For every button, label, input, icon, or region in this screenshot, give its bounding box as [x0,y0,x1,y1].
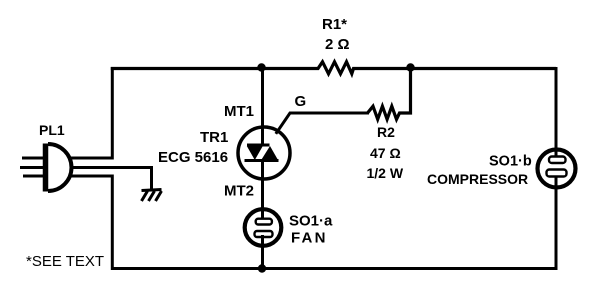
svg-text:TR1: TR1 [200,129,228,146]
svg-text:SO1·a: SO1·a [289,213,333,230]
svg-text:MT2: MT2 [224,183,254,200]
svg-text:MT1: MT1 [224,103,254,120]
svg-text:R2: R2 [377,124,395,140]
svg-text:47 Ω: 47 Ω [370,145,401,161]
svg-text:*SEE TEXT: *SEE TEXT [26,253,104,270]
svg-text:G: G [295,93,307,110]
svg-text:COMPRESSOR: COMPRESSOR [427,171,528,187]
svg-text:SO1·b: SO1·b [489,154,532,170]
svg-text:FAN: FAN [291,230,328,247]
svg-text:ECG 5616: ECG 5616 [158,149,228,166]
svg-text:PL1: PL1 [39,122,65,138]
svg-text:2 Ω: 2 Ω [325,36,350,53]
svg-text:R1*: R1* [322,16,347,33]
svg-text:1/2 W: 1/2 W [367,165,404,181]
